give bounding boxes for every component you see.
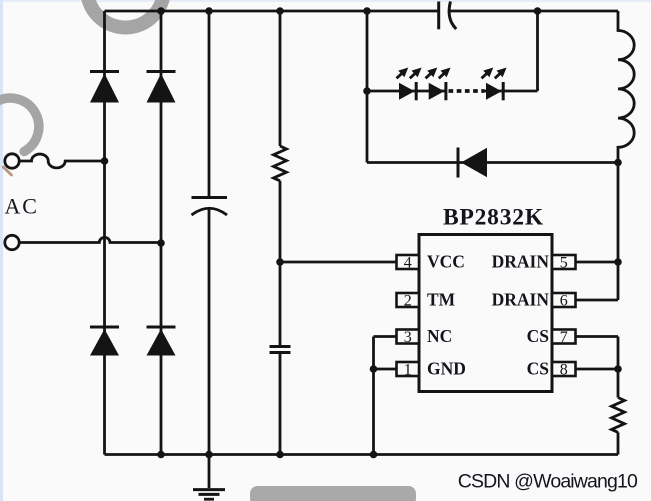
node VCC junction dot (276, 258, 284, 266)
diode D5 (freewheel) (457, 148, 460, 178)
node bottom IC gnd junction dot (370, 451, 378, 459)
wire GND pin1 (374, 368, 397, 371)
watermark arc top (87, 0, 164, 28)
node top R1 junction dot (276, 7, 284, 15)
svg-text:GND: GND (427, 359, 466, 379)
svg-text:NC: NC (427, 326, 452, 346)
wire freewheel (367, 161, 618, 164)
diode D2 (bridge upper-right) (160, 11, 163, 243)
watermark gray bar bottom (250, 486, 416, 501)
capacitor C2 (VCC) (270, 345, 291, 348)
svg-text:CSDN @Woaiwang10: CSDN @Woaiwang10 (458, 471, 638, 493)
svg-text:BP2832K: BP2832K (443, 205, 544, 231)
arrow LED1 a (393, 64, 411, 81)
svg-text:CS: CS (527, 326, 549, 346)
wire R1 to C2 (279, 181, 282, 345)
node bottom D4 junction dot (157, 451, 165, 459)
op-amp U1 BP2832K body (419, 235, 552, 392)
diode D3 (bridge lower-left) (103, 161, 106, 455)
svg-text:1: 1 (404, 362, 412, 379)
wire DRAIN pin6 (576, 163, 619, 301)
node CS junction dot (614, 365, 622, 373)
svg-text:8: 8 (560, 362, 568, 379)
AC terminal bottom (5, 235, 19, 249)
AC terminal top (5, 154, 19, 168)
arrow LED2 b (436, 64, 454, 81)
svg-text:2: 2 (404, 293, 412, 310)
pin box 6 right (552, 293, 576, 307)
wire VCC pin4 (280, 261, 397, 264)
wire LED string right (485, 11, 538, 91)
pin box 1 left (397, 362, 420, 376)
svg-text:TM: TM (427, 290, 456, 310)
inductor L1 (618, 11, 634, 163)
arrow LED1 b (407, 64, 425, 81)
wire bottom rail (105, 453, 619, 456)
svg-text:7: 7 (560, 329, 568, 346)
node bottom gnd junction dot (205, 451, 213, 459)
wire NC-GND vertical (372, 337, 375, 455)
pin box 7 right (552, 330, 576, 344)
node pin5 junction dot (614, 258, 622, 266)
wire LED string dashed section (449, 89, 485, 93)
node AC1 junction dot (101, 157, 109, 165)
LED LED1 (399, 83, 415, 100)
svg-text:4: 4 (404, 255, 412, 272)
resistor R2 (current sense) (617, 369, 620, 398)
wire top rail right segment (450, 10, 618, 13)
node AC2 junction dot (157, 239, 165, 247)
pin box 2 left (397, 293, 420, 307)
node top LED branch junction dot (363, 7, 371, 15)
arrow LED3 a (478, 64, 496, 81)
node bottom C2 junction dot (276, 451, 284, 459)
svg-text:DRAIN: DRAIN (492, 290, 550, 310)
wire NC pin3 (374, 335, 397, 338)
LED LED3 (486, 83, 502, 100)
diode D4 (bridge lower-right) (160, 243, 163, 455)
node drain junction dot (614, 159, 622, 167)
wire LED branch vertical (366, 11, 369, 163)
arrow LED2 a (422, 64, 440, 81)
pin box 5 right (552, 255, 576, 269)
ground (208, 455, 211, 489)
fuse F1 (20, 154, 105, 168)
wire LED string (367, 90, 446, 93)
svg-text:CS: CS (527, 359, 549, 379)
pin box 3 left (397, 330, 420, 344)
node LED+ junction dot (363, 87, 371, 95)
wire DRAIN pin5 (576, 261, 619, 264)
resistor R1 (startup) (279, 11, 282, 146)
svg-text:3: 3 (404, 329, 412, 346)
capacitor C3 (top, polarized) (437, 2, 440, 30)
wire CS pin8 (576, 368, 619, 371)
svg-text:VCC: VCC (427, 252, 465, 272)
arrow LED3 b (492, 64, 510, 81)
capacitor C1 (bulk electrolytic) (208, 11, 211, 197)
node GND junction dot (370, 365, 378, 373)
node top D2 junction dot (157, 7, 165, 15)
watermark orange tick (3, 167, 11, 175)
node top LED return junction dot (534, 7, 542, 15)
pin box 8 right (552, 362, 576, 376)
svg-text:6: 6 (560, 293, 568, 310)
node top C1 junction dot (205, 7, 213, 15)
watermark arc left (0, 98, 39, 151)
wire top rail left segment (105, 10, 439, 13)
svg-text:5: 5 (560, 255, 568, 272)
diode D1 (bridge upper-left) (103, 11, 106, 161)
pin box 4 left (397, 255, 420, 269)
svg-text:AC: AC (5, 194, 39, 219)
svg-text:DRAIN: DRAIN (492, 252, 550, 272)
wire AC bottom with hopover (20, 237, 162, 242)
LED LED2 (429, 83, 445, 100)
wire CS pin7 (576, 337, 619, 370)
